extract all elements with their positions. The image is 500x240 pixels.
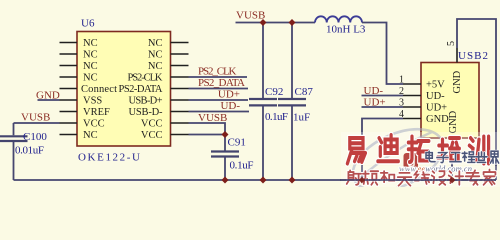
- svg-text:5: 5: [446, 41, 457, 46]
- svg-text:C92: C92: [265, 86, 283, 98]
- svg-text:USB2: USB2: [458, 50, 488, 62]
- svg-text:UD+: UD+: [426, 103, 447, 114]
- svg-text:1: 1: [399, 75, 404, 86]
- svg-text:VUSB: VUSB: [21, 112, 50, 124]
- svg-text:UD+: UD+: [364, 97, 386, 109]
- svg-text:USB-D-: USB-D-: [129, 107, 164, 118]
- svg-text:PS2-CLK: PS2-CLK: [128, 73, 163, 84]
- svg-text:PS2-DATA: PS2-DATA: [119, 84, 163, 95]
- svg-text:USB-D+: USB-D+: [129, 96, 163, 107]
- svg-text:NC: NC: [83, 50, 98, 61]
- svg-text:VREF: VREF: [83, 107, 110, 118]
- svg-text:UD-: UD-: [220, 100, 240, 112]
- svg-text:UD+: UD+: [218, 89, 240, 101]
- svg-text:C91: C91: [228, 137, 246, 149]
- svg-text:NC: NC: [83, 38, 98, 49]
- svg-text:GND: GND: [36, 90, 60, 102]
- svg-text:1uF: 1uF: [293, 112, 310, 124]
- svg-text:NC: NC: [148, 50, 163, 61]
- svg-text:VCC: VCC: [141, 130, 163, 141]
- svg-text:GND: GND: [426, 114, 449, 125]
- svg-text:GND: GND: [448, 110, 459, 133]
- svg-text:UD-: UD-: [364, 85, 384, 97]
- svg-text:VCC: VCC: [141, 119, 163, 130]
- svg-text:NC: NC: [83, 61, 98, 72]
- svg-text:NC: NC: [148, 61, 163, 72]
- svg-text:UD-: UD-: [426, 91, 445, 102]
- svg-text:GND: GND: [452, 70, 463, 93]
- svg-text:VUSB: VUSB: [198, 112, 227, 124]
- svg-text:NC: NC: [83, 130, 98, 141]
- svg-text:Connect: Connect: [81, 84, 117, 95]
- svg-text:VUSB: VUSB: [236, 10, 265, 22]
- svg-text:+5V: +5V: [426, 80, 445, 91]
- svg-text:0.1uF: 0.1uF: [265, 111, 288, 123]
- svg-text:C87: C87: [295, 86, 314, 98]
- svg-text:NC: NC: [83, 73, 98, 84]
- svg-text:C100: C100: [23, 131, 47, 143]
- svg-text:VSS: VSS: [83, 96, 102, 107]
- svg-text:PS2_DATA: PS2_DATA: [198, 77, 245, 89]
- svg-text:NC: NC: [148, 38, 163, 49]
- svg-text:U6: U6: [81, 18, 95, 30]
- svg-text:0.01uF: 0.01uF: [15, 145, 44, 157]
- svg-text:PS2_CLK: PS2_CLK: [198, 66, 237, 78]
- svg-text:10nH L3: 10nH L3: [326, 24, 366, 36]
- svg-text:VCC: VCC: [83, 119, 105, 130]
- svg-text:0.1uF: 0.1uF: [230, 160, 254, 172]
